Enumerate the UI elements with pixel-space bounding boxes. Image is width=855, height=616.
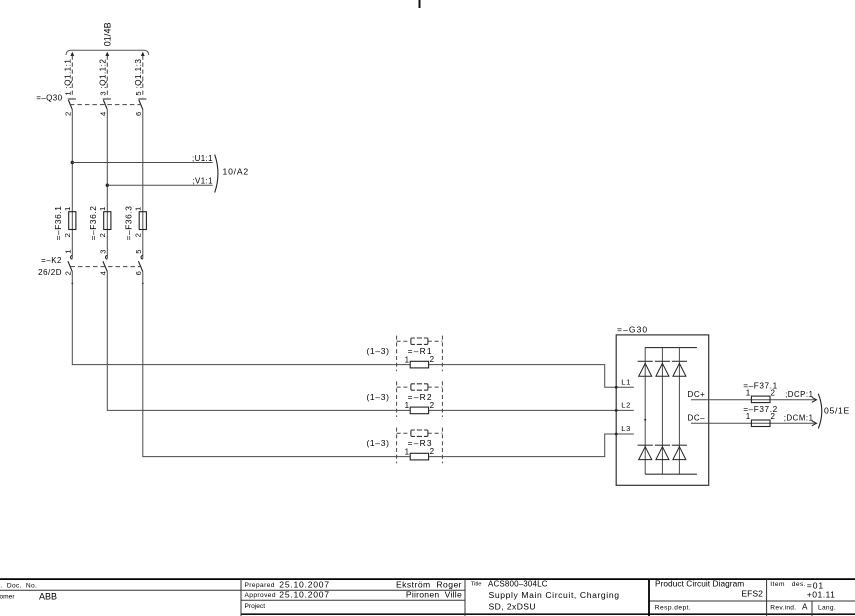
svg-text:;Q1.1:1: ;Q1.1:1 [63,59,72,89]
svg-text:SD, 2xDSU: SD, 2xDSU [489,602,537,612]
svg-text:(1–3): (1–3) [366,438,389,448]
title block line under row 1 (left+prepared) [0,589,465,591]
svg-text:1: 1 [405,401,410,410]
svg-text:6: 6 [134,112,143,116]
svg-text:1: 1 [746,412,751,421]
svg-text:Lang.: Lang. [818,605,836,612]
svg-text:(1–3): (1–3) [366,346,389,356]
rectifier DC- rail (bottom) [645,473,697,475]
node L3 terminal [615,433,618,436]
node L1 terminal [615,386,618,389]
resistor R2 bypass contact (dashed box) [411,384,428,390]
arrow phase 2 to rail [105,52,109,56]
junction artifact phase 3 [142,283,144,285]
switch Q30 pole 1 contact [68,99,76,110]
svg-text:;DCP:1: ;DCP:1 [785,390,813,399]
resistor R3 body [410,453,428,460]
title block vertical divider x241 [240,579,242,616]
title block line under approved row [241,599,465,601]
svg-text:=–F36.2: =–F36.2 [88,206,98,241]
svg-text:L2: L2 [621,401,631,410]
title block bottom line [241,613,855,615]
svg-text:omer: omer [0,594,15,601]
off-page bracket to 10/A2 [215,155,218,193]
svg-text:. Doc. No.: . Doc. No. [1,583,38,590]
svg-text:DC+: DC+ [688,390,706,399]
svg-text:;V1:1: ;V1:1 [192,177,212,186]
junction artifact on leg 1 [644,419,646,421]
resistor R1 bypass contact (dashed box) [411,338,428,344]
svg-text:;DCM:1: ;DCM:1 [784,414,814,423]
svg-text:05/1E: 05/1E [824,405,850,415]
rectifier phase leg 1 [644,348,646,475]
svg-text:Product Circuit Diagram: Product Circuit Diagram [655,579,744,589]
svg-text:=–F36.1: =–F36.1 [53,206,63,241]
svg-text:;U1:1: ;U1:1 [192,154,213,163]
wire tap to V1:1 [107,184,212,186]
off-page bracket to 05/1E [818,394,822,429]
svg-text:Piironen Ville: Piironen Ville [406,590,462,600]
fuse F37.2 body [751,420,770,427]
svg-text:Supply Main Circuit, Charging: Supply Main Circuit, Charging [489,590,620,600]
switch Q30 mechanical coupling (dashed) [70,104,141,106]
svg-text:EFS2: EFS2 [741,589,763,599]
wire phase 2 K2 down and right to L2 [107,272,634,411]
svg-text:26/2D: 26/2D [38,268,62,277]
diode D6 (lower leg 3) [672,444,687,446]
diode D2 (upper leg 2) [655,360,670,362]
wire phase 1 incoming (dashed) [71,56,73,98]
diode D4 (lower leg 1) [638,444,653,446]
resistor R2 body [410,407,428,414]
wire phase 3 K2 down and right to L3 [143,272,634,457]
svg-text:25.10.2007: 25.10.2007 [279,590,330,600]
svg-text:4: 4 [98,112,107,116]
contactor K2 mechanical coupling (dashed) [71,266,142,268]
incoming supply rail 01/4B (bracket over three phases) [66,50,149,55]
resistor R1 optional bypass enclosure (dashed) [397,336,443,372]
svg-text:Title: Title [471,581,482,587]
svg-text:2: 2 [430,401,435,410]
arrow phase 3 to rail [141,52,145,56]
diode D3 (upper leg 3) [672,360,687,362]
page top centre fold mark [419,0,421,8]
svg-text:1: 1 [134,207,143,211]
title block top border [0,578,855,580]
svg-text:1: 1 [63,91,72,95]
wire tap to U1:1 [72,162,212,164]
svg-text:=–F36.3: =–F36.3 [124,206,134,241]
fuse F36.3 body [139,212,146,230]
svg-text:+01.11: +01.11 [807,589,836,599]
node tap U1 on phase 1 [71,161,74,164]
wire phase 3 Q30 to K2 [142,110,144,259]
svg-text:6: 6 [134,271,143,275]
svg-text:10/A2: 10/A2 [223,167,249,177]
wire phase 2 Q30 to K2 [106,110,108,259]
title block vertical divider x649 [648,579,650,616]
svg-text:Project: Project [245,603,266,610]
wire phase 1 Q30 to K2 [71,110,73,259]
svg-text:1: 1 [405,447,410,456]
contactor K2 pole 1 contact [68,256,72,272]
wire phase 3 incoming (dashed) [142,56,144,98]
junction artifact phase 1 [71,283,73,285]
arrow DC+ off-page [812,397,817,402]
node L2 terminal [615,409,618,412]
svg-text:;Q1.1:2: ;Q1.1:2 [98,59,107,89]
svg-text:A: A [802,603,808,612]
svg-text:=–G30: =–G30 [617,324,648,334]
svg-text:2: 2 [98,233,107,237]
svg-text:1: 1 [63,207,72,211]
svg-text:ABB: ABB [39,592,57,602]
svg-text:2: 2 [63,112,72,116]
svg-text:Item des.: Item des. [770,581,806,588]
svg-text:Ekström Roger: Ekström Roger [396,579,462,589]
svg-text:=–Q30: =–Q30 [36,93,62,102]
fuse F37.1 body [751,396,770,403]
svg-text:Rev.ind.: Rev.ind. [770,605,796,612]
svg-text:Prepared: Prepared [245,582,275,589]
rectifier phase leg 3 [678,348,680,475]
title block line under product row (right) [649,600,855,602]
fuse F36.1 body [69,212,76,230]
svg-text:ACS800–304LC: ACS800–304LC [488,579,548,588]
resistor R3 bypass contact (dashed box) [411,430,428,436]
svg-text:1: 1 [746,388,751,397]
node tap V1 on phase 2 [106,184,109,187]
resistor R1 body [410,361,428,368]
contactor K2 pole 2 contact [103,256,107,272]
svg-text:2: 2 [63,271,72,275]
diode D5 (lower leg 2) [655,444,670,446]
resistor R3 optional bypass enclosure (dashed) [397,428,443,464]
arrow phase 1 to rail [70,52,74,56]
arrow DC- off-page [812,421,817,426]
svg-text:2: 2 [63,233,72,237]
svg-text:3: 3 [98,91,107,95]
svg-text:Resp.dept.: Resp.dept. [655,605,691,612]
wire DC- output [691,422,816,424]
resistor R2 optional bypass enclosure (dashed) [397,381,443,417]
rectifier DC+ rail (top) [645,347,697,349]
wire phase 1 K2 down and right to L1 [72,272,634,388]
svg-text:;Q1.1:3: ;Q1.1:3 [134,59,143,89]
svg-text:25.10.2007: 25.10.2007 [279,579,330,589]
rectifier phase leg 2 [661,348,663,475]
svg-text:1: 1 [98,207,107,211]
svg-text:01/4B: 01/4B [102,22,112,46]
svg-text:2: 2 [770,388,775,397]
title block vertical divider x766.6 [766,579,768,616]
svg-text:1: 1 [63,250,72,254]
svg-text:DC–: DC– [688,414,706,423]
svg-text:2: 2 [770,412,775,421]
svg-text:5: 5 [134,91,143,95]
diode D1 (upper leg 1) [638,360,653,362]
svg-text:L3: L3 [621,424,631,433]
svg-text:L1: L1 [621,377,631,386]
switch Q30 pole 3 contact [138,99,146,110]
svg-text:3: 3 [98,250,107,254]
svg-text:4: 4 [98,271,107,275]
rectifier unit G30 enclosure [616,335,709,485]
svg-text:5: 5 [134,250,143,254]
fuse F36.2 body [104,212,111,230]
wire phase 2 incoming (dashed) [106,56,108,98]
wire DC+ output [691,399,816,401]
title block vertical divider x465 [464,579,466,616]
contactor K2 pole 3 contact [138,256,142,272]
title block vertical divider x812 [811,601,813,616]
svg-text:2: 2 [430,355,435,364]
svg-text:2: 2 [134,233,143,237]
switch Q30 pole 2 contact [103,99,111,110]
svg-text:=–K2: =–K2 [41,256,62,265]
svg-text:(1–3): (1–3) [366,392,389,402]
svg-text:2: 2 [430,447,435,456]
svg-text:1: 1 [405,355,410,364]
svg-text:Approved: Approved [245,592,276,599]
